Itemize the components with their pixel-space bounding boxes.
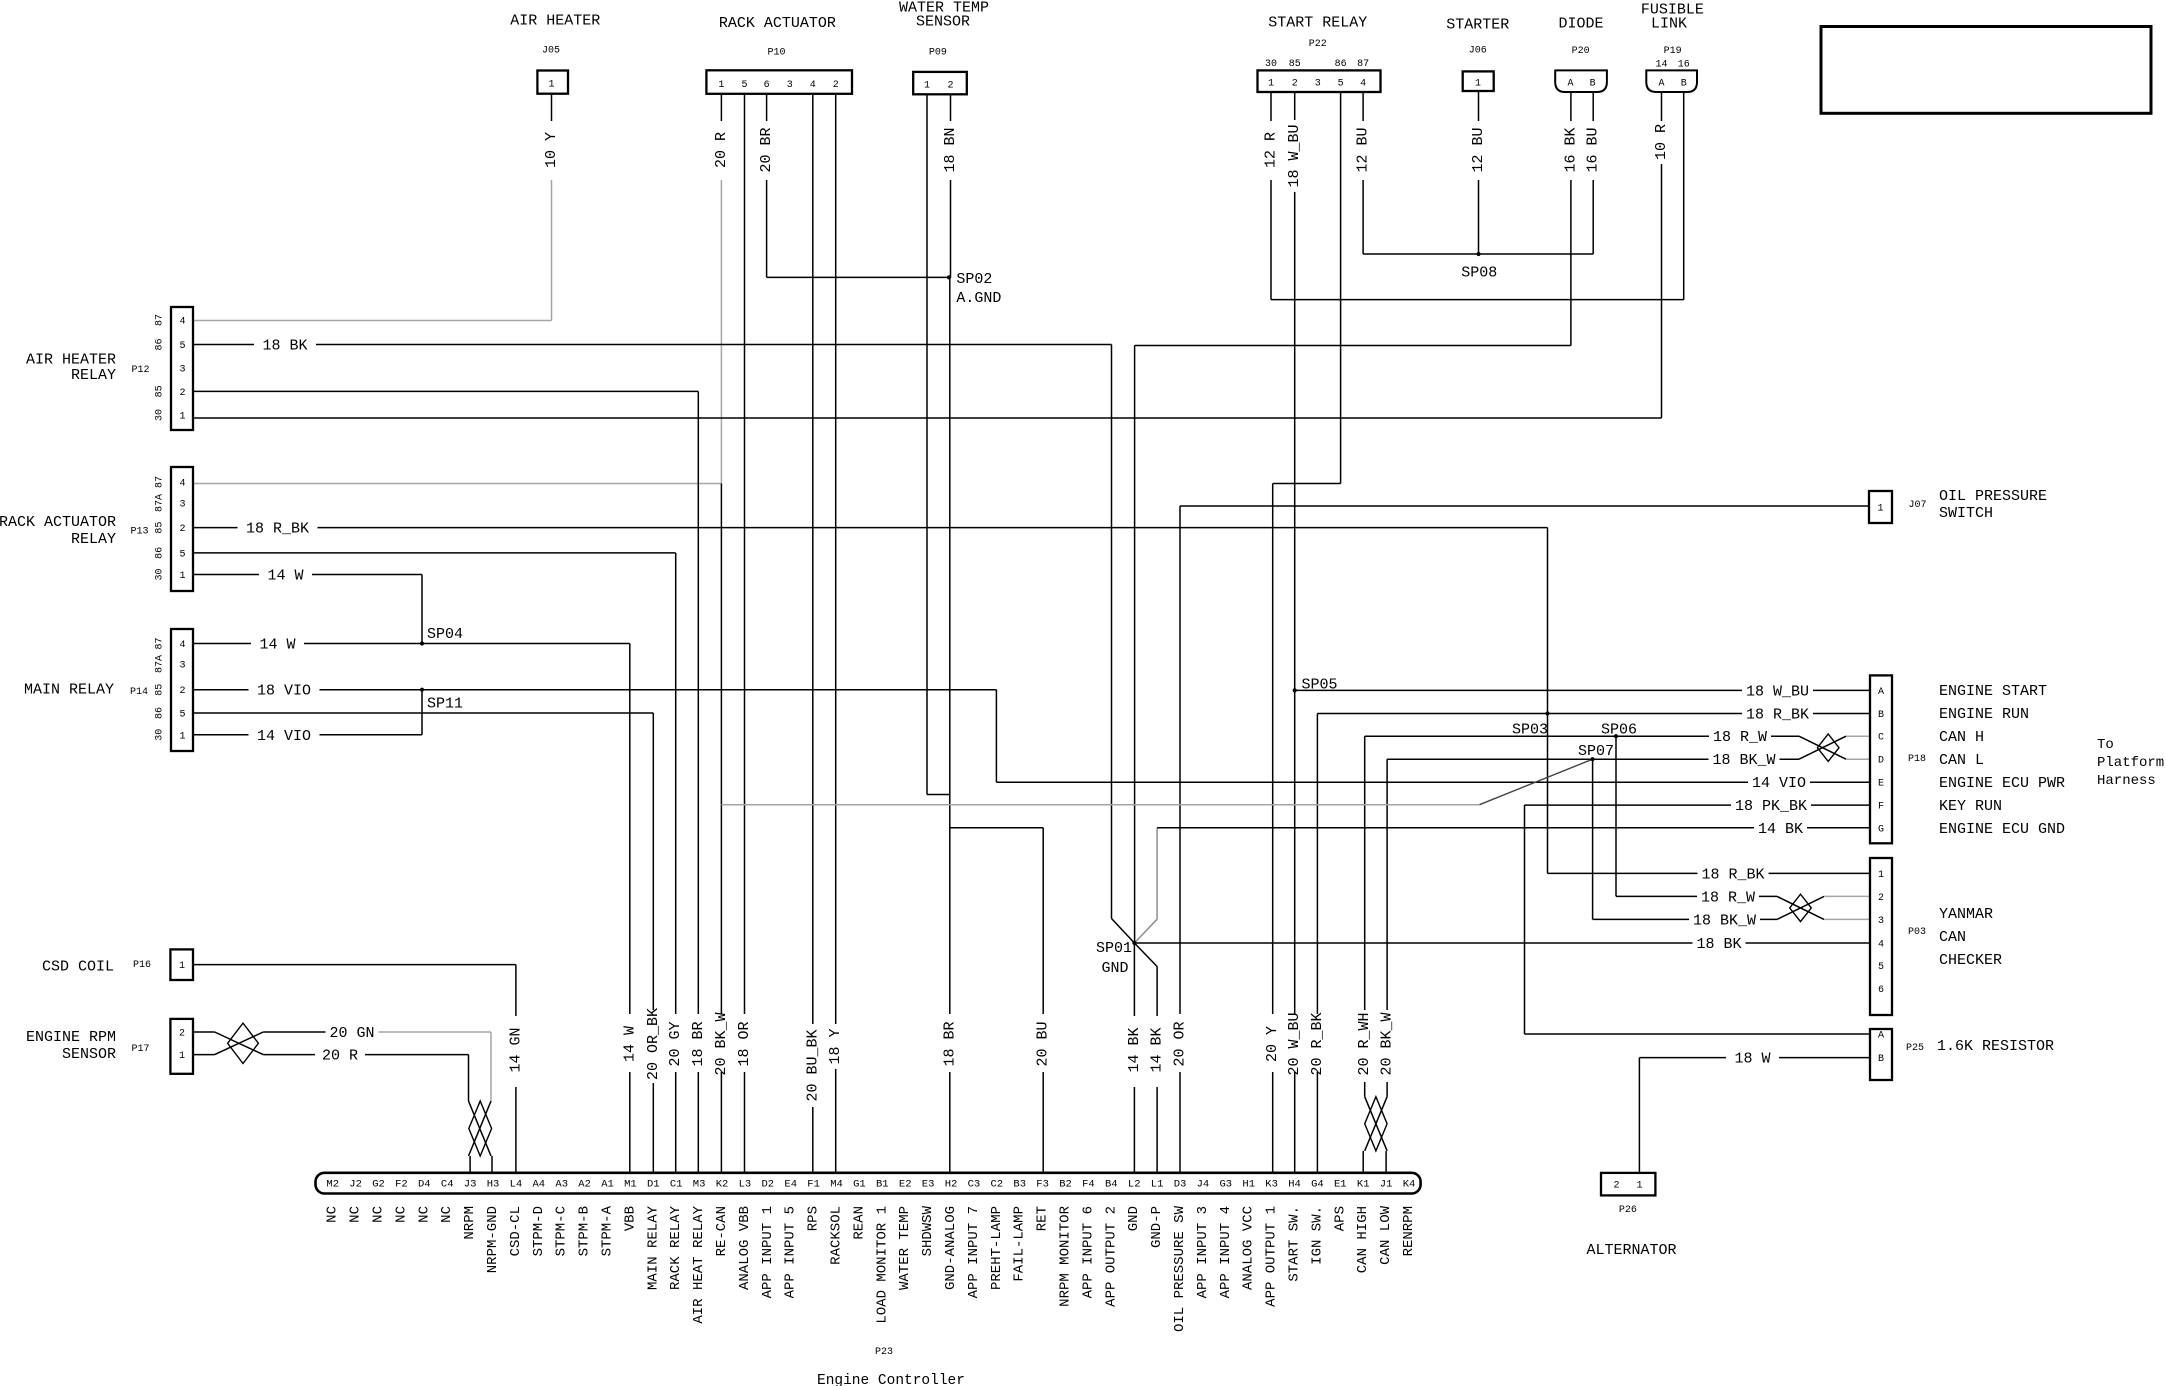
svg-text:2: 2 (947, 81, 953, 92)
svg-text:1: 1 (1877, 504, 1883, 515)
svg-text:OIL PRESSURE: OIL PRESSURE (1939, 488, 2047, 505)
svg-text:CAN HIGH: CAN HIGH (1355, 1206, 1371, 1273)
svg-text:RE-CAN: RE-CAN (714, 1206, 730, 1256)
svg-text:20 OR: 20 OR (1172, 1021, 1189, 1066)
svg-text:SENSOR: SENSOR (916, 14, 970, 31)
svg-text:ENGINE ECU PWR: ENGINE ECU PWR (1939, 775, 2065, 792)
svg-text:APP OUTPUT 2: APP OUTPUT 2 (1103, 1206, 1119, 1307)
svg-text:APP INPUT 4: APP INPUT 4 (1218, 1206, 1234, 1298)
svg-text:Engine Controller: Engine Controller (817, 1373, 965, 1386)
svg-text:M1: M1 (624, 1179, 637, 1191)
svg-text:B: B (1878, 1054, 1884, 1065)
svg-text:16: 16 (1678, 60, 1690, 71)
svg-text:18 BK: 18 BK (1696, 936, 1741, 953)
svg-text:6: 6 (764, 80, 770, 91)
svg-text:L4: L4 (510, 1179, 523, 1191)
svg-text:P12: P12 (131, 365, 149, 376)
svg-text:ALTERNATOR: ALTERNATOR (1587, 1242, 1677, 1259)
svg-text:12 R: 12 R (1263, 132, 1280, 168)
svg-text:SP07: SP07 (1578, 743, 1614, 760)
svg-text:NC: NC (348, 1206, 364, 1223)
svg-text:STPM-D: STPM-D (531, 1206, 547, 1256)
svg-text:E1: E1 (1334, 1179, 1347, 1191)
svg-text:4: 4 (179, 479, 185, 490)
svg-text:NRPM-GND: NRPM-GND (485, 1206, 501, 1273)
svg-text:P13: P13 (130, 527, 148, 538)
svg-text:18 R_BK: 18 R_BK (246, 521, 309, 538)
svg-text:4: 4 (810, 80, 816, 91)
svg-text:A: A (1658, 79, 1664, 90)
svg-text:85: 85 (155, 385, 166, 397)
svg-text:2: 2 (179, 1029, 185, 1040)
svg-text:30: 30 (1265, 59, 1277, 70)
svg-text:RELAY: RELAY (71, 531, 116, 548)
svg-text:APP INPUT 5: APP INPUT 5 (783, 1206, 799, 1298)
svg-text:1: 1 (1475, 79, 1481, 90)
svg-text:85: 85 (1289, 59, 1301, 70)
svg-text:RACK RELAY: RACK RELAY (668, 1205, 684, 1290)
svg-text:APS: APS (1332, 1206, 1348, 1231)
svg-text:C: C (1878, 733, 1884, 744)
svg-text:20 BR: 20 BR (758, 127, 775, 172)
svg-text:18 R_W: 18 R_W (1713, 729, 1767, 746)
svg-text:18 BN: 18 BN (942, 127, 959, 172)
svg-text:20 OR_BK: 20 OR_BK (645, 1008, 662, 1080)
svg-text:H4: H4 (1288, 1179, 1301, 1191)
svg-text:MAIN RELAY: MAIN RELAY (645, 1205, 661, 1290)
svg-text:START SW.: START SW. (1287, 1206, 1303, 1282)
svg-text:GND: GND (1102, 960, 1129, 977)
svg-text:CAN H: CAN H (1939, 729, 1984, 746)
svg-text:J2: J2 (349, 1179, 362, 1191)
svg-text:2: 2 (179, 686, 185, 697)
svg-text:30: 30 (155, 409, 166, 421)
svg-text:APP INPUT 7: APP INPUT 7 (966, 1206, 982, 1298)
svg-text:18 R_W: 18 R_W (1701, 889, 1755, 906)
svg-text:J4: J4 (1197, 1179, 1210, 1191)
svg-text:APP INPUT 1: APP INPUT 1 (760, 1206, 776, 1298)
svg-text:P19: P19 (1664, 46, 1682, 57)
svg-text:G4: G4 (1311, 1179, 1324, 1191)
svg-text:20 R_WH: 20 R_WH (1356, 1012, 1373, 1075)
svg-text:2: 2 (1878, 893, 1884, 904)
svg-text:B: B (1878, 710, 1884, 721)
svg-text:NC: NC (393, 1206, 409, 1223)
svg-text:VBB: VBB (622, 1206, 638, 1231)
svg-text:5: 5 (741, 80, 747, 91)
svg-text:20 BU_BK: 20 BU_BK (804, 1029, 821, 1101)
svg-text:87A: 87A (155, 494, 166, 512)
svg-text:G: G (1878, 825, 1884, 836)
svg-text:87: 87 (155, 314, 166, 326)
svg-text:M3: M3 (693, 1179, 706, 1191)
svg-text:K4: K4 (1403, 1179, 1416, 1191)
svg-text:L3: L3 (739, 1179, 752, 1191)
svg-text:D: D (1878, 756, 1884, 767)
svg-text:RENRPM: RENRPM (1401, 1206, 1417, 1256)
svg-text:H1: H1 (1242, 1179, 1255, 1191)
svg-text:C2: C2 (990, 1179, 1003, 1191)
svg-text:AIR HEAT RELAY: AIR HEAT RELAY (691, 1205, 707, 1323)
svg-text:STPM-A: STPM-A (600, 1205, 616, 1256)
svg-text:B2: B2 (1059, 1179, 1072, 1191)
svg-text:14 BK: 14 BK (1149, 1027, 1166, 1072)
svg-text:F4: F4 (1082, 1179, 1095, 1191)
svg-text:APP INPUT 3: APP INPUT 3 (1195, 1206, 1211, 1298)
svg-text:5: 5 (1338, 79, 1344, 90)
svg-text:L1: L1 (1151, 1179, 1164, 1191)
svg-text:12 BU: 12 BU (1355, 127, 1372, 172)
svg-text:1: 1 (1268, 79, 1274, 90)
svg-text:A.GND: A.GND (956, 290, 1001, 307)
svg-text:5: 5 (1878, 962, 1884, 973)
svg-text:CAN L: CAN L (1939, 752, 1984, 769)
svg-text:18 W_BU: 18 W_BU (1286, 124, 1303, 187)
svg-text:1: 1 (924, 81, 930, 92)
svg-text:4: 4 (1360, 79, 1366, 90)
svg-text:18 BR: 18 BR (690, 1021, 707, 1066)
svg-text:3: 3 (179, 500, 185, 511)
svg-text:STPM-B: STPM-B (577, 1206, 593, 1256)
svg-text:RPS: RPS (806, 1206, 822, 1231)
svg-text:IGN SW.: IGN SW. (1309, 1206, 1325, 1265)
svg-text:G2: G2 (372, 1179, 385, 1191)
svg-text:85: 85 (155, 522, 166, 534)
svg-text:K2: K2 (716, 1179, 729, 1191)
svg-text:SP05: SP05 (1302, 677, 1338, 694)
svg-text:1: 1 (1636, 1181, 1642, 1192)
svg-text:P18: P18 (1908, 754, 1926, 765)
svg-text:14 W: 14 W (621, 1026, 638, 1062)
svg-text:NRPM: NRPM (462, 1206, 478, 1240)
svg-text:4: 4 (179, 317, 185, 328)
svg-text:30: 30 (155, 568, 166, 580)
svg-text:3: 3 (179, 661, 185, 672)
svg-text:86: 86 (155, 547, 166, 559)
svg-text:87: 87 (1357, 59, 1369, 70)
svg-text:20 BK_W: 20 BK_W (713, 1012, 730, 1075)
svg-text:18 PK_BK: 18 PK_BK (1735, 798, 1807, 815)
svg-text:1: 1 (179, 731, 185, 742)
svg-text:F: F (1878, 802, 1884, 813)
svg-text:ENGINE RUN: ENGINE RUN (1939, 706, 2029, 723)
svg-text:20 BU: 20 BU (1035, 1021, 1052, 1066)
svg-text:CSD-CL: CSD-CL (508, 1206, 524, 1256)
svg-text:14 W: 14 W (267, 568, 303, 585)
svg-text:20 BK_W: 20 BK_W (1379, 1012, 1396, 1075)
svg-text:A4: A4 (532, 1179, 545, 1191)
svg-text:OIL PRESSURE SW: OIL PRESSURE SW (1172, 1205, 1188, 1332)
svg-text:A1: A1 (601, 1179, 614, 1191)
svg-text:L2: L2 (1128, 1179, 1141, 1191)
svg-text:P10: P10 (767, 48, 785, 59)
svg-text:ENGINE RPM: ENGINE RPM (26, 1029, 116, 1046)
svg-text:J05: J05 (542, 46, 560, 57)
svg-text:85: 85 (155, 684, 166, 696)
svg-text:CAN: CAN (1939, 929, 1966, 946)
svg-text:14: 14 (1655, 60, 1667, 71)
svg-text:18 BK_W: 18 BK_W (1693, 912, 1756, 929)
svg-text:E3: E3 (922, 1179, 935, 1191)
svg-text:18 W_BU: 18 W_BU (1746, 683, 1809, 700)
svg-text:14 VIO: 14 VIO (257, 728, 311, 745)
svg-text:4: 4 (1878, 939, 1884, 950)
svg-text:P03: P03 (1908, 927, 1926, 938)
svg-text:H2: H2 (945, 1179, 958, 1191)
svg-text:20 Y: 20 Y (1264, 1026, 1281, 1062)
svg-text:J3: J3 (464, 1179, 477, 1191)
svg-text:START RELAY: START RELAY (1268, 15, 1367, 32)
svg-text:M4: M4 (830, 1179, 843, 1191)
svg-text:14 BK: 14 BK (1126, 1027, 1143, 1072)
svg-text:18 R_BK: 18 R_BK (1746, 707, 1809, 724)
svg-text:SP01: SP01 (1096, 940, 1132, 957)
svg-text:P09: P09 (929, 48, 947, 59)
svg-text:APP INPUT 6: APP INPUT 6 (1080, 1206, 1096, 1298)
svg-text:D3: D3 (1174, 1179, 1187, 1191)
svg-text:16 BK: 16 BK (1562, 127, 1579, 172)
svg-text:87: 87 (155, 476, 166, 488)
svg-text:C4: C4 (441, 1179, 454, 1191)
svg-text:A: A (1878, 687, 1884, 698)
svg-text:FAIL-LAMP: FAIL-LAMP (1012, 1206, 1028, 1282)
svg-text:20 GN: 20 GN (329, 1025, 374, 1042)
svg-text:14 BK: 14 BK (1758, 821, 1803, 838)
svg-text:3: 3 (1315, 79, 1321, 90)
svg-text:PREHT-LAMP: PREHT-LAMP (989, 1206, 1005, 1290)
svg-text:GND-P: GND-P (1149, 1206, 1165, 1248)
svg-text:CSD COIL: CSD COIL (42, 959, 114, 976)
svg-text:E4: E4 (784, 1179, 797, 1191)
svg-text:C1: C1 (670, 1179, 683, 1191)
svg-text:18 OR: 18 OR (736, 1021, 753, 1066)
svg-text:B: B (1590, 79, 1596, 90)
svg-text:RET: RET (1035, 1206, 1051, 1231)
svg-text:10 Y: 10 Y (543, 132, 560, 168)
svg-text:86: 86 (155, 707, 166, 719)
svg-text:K1: K1 (1357, 1179, 1370, 1191)
svg-text:To: To (2097, 737, 2114, 753)
svg-text:P22: P22 (1309, 39, 1327, 50)
svg-text:LINK: LINK (1651, 16, 1687, 33)
svg-text:SENSOR: SENSOR (62, 1046, 116, 1063)
svg-text:6: 6 (1878, 985, 1884, 996)
svg-text:87: 87 (155, 637, 166, 649)
svg-text:J1: J1 (1380, 1179, 1393, 1191)
svg-text:1: 1 (179, 1051, 185, 1062)
svg-text:GND: GND (1126, 1206, 1142, 1231)
svg-text:18 BK: 18 BK (262, 338, 307, 355)
svg-text:RACK ACTUATOR: RACK ACTUATOR (719, 15, 836, 32)
svg-text:F3: F3 (1036, 1179, 1049, 1191)
svg-text:YANMAR: YANMAR (1939, 906, 1993, 923)
svg-text:18 Y: 18 Y (827, 1028, 844, 1064)
svg-text:16 BU: 16 BU (1585, 127, 1602, 172)
svg-text:2: 2 (179, 388, 185, 399)
svg-text:D4: D4 (418, 1179, 431, 1191)
svg-text:30: 30 (155, 729, 166, 741)
svg-text:STARTER: STARTER (1446, 17, 1509, 34)
svg-text:ANALOG VCC: ANALOG VCC (1241, 1206, 1257, 1290)
svg-text:ENGINE START: ENGINE START (1939, 683, 2047, 700)
svg-text:RACK ACTUATOR: RACK ACTUATOR (0, 514, 116, 531)
svg-text:E: E (1878, 779, 1884, 790)
svg-text:ANALOG VBB: ANALOG VBB (737, 1206, 753, 1290)
svg-text:P14: P14 (130, 687, 148, 698)
svg-text:20 R_BK: 20 R_BK (1309, 1012, 1326, 1075)
svg-text:D2: D2 (761, 1179, 774, 1191)
svg-text:2: 2 (1292, 79, 1298, 90)
svg-text:G1: G1 (853, 1179, 866, 1191)
svg-text:20 GY: 20 GY (667, 1021, 684, 1066)
svg-text:86: 86 (155, 338, 166, 350)
svg-text:P23: P23 (875, 1347, 893, 1358)
svg-text:SP03: SP03 (1512, 722, 1548, 739)
svg-text:14 VIO: 14 VIO (1752, 775, 1806, 792)
svg-text:E2: E2 (899, 1179, 912, 1191)
svg-text:SP02: SP02 (956, 271, 992, 288)
svg-text:14 GN: 14 GN (507, 1027, 524, 1072)
svg-text:RACKSOL: RACKSOL (829, 1206, 845, 1265)
svg-text:M2: M2 (326, 1179, 339, 1191)
svg-text:18 W: 18 W (1734, 1051, 1770, 1068)
svg-text:18 BK_W: 18 BK_W (1712, 752, 1775, 769)
svg-text:14 W: 14 W (259, 637, 295, 654)
svg-text:SP11: SP11 (427, 696, 463, 713)
svg-text:4: 4 (179, 640, 185, 651)
svg-text:SHDWSW: SHDWSW (920, 1205, 936, 1256)
svg-text:18 BR: 18 BR (941, 1021, 958, 1066)
svg-text:3: 3 (179, 365, 185, 376)
svg-text:AIR HEATER: AIR HEATER (510, 13, 600, 30)
svg-text:SWITCH: SWITCH (1939, 505, 1993, 522)
svg-text:20 W_BU: 20 W_BU (1286, 1012, 1303, 1075)
svg-text:1.6K RESISTOR: 1.6K RESISTOR (1937, 1038, 2054, 1055)
svg-text:C3: C3 (968, 1179, 981, 1191)
svg-text:H3: H3 (487, 1179, 500, 1191)
svg-text:STPM-C: STPM-C (554, 1206, 570, 1256)
svg-text:P25: P25 (1906, 1043, 1924, 1054)
svg-text:NC: NC (371, 1206, 387, 1223)
svg-text:GND-ANALOG: GND-ANALOG (943, 1206, 959, 1290)
svg-text:A2: A2 (578, 1179, 591, 1191)
svg-text:Platform: Platform (2097, 755, 2164, 771)
svg-text:12 BU: 12 BU (1470, 127, 1487, 172)
svg-text:CAN LOW: CAN LOW (1378, 1205, 1394, 1264)
svg-text:F1: F1 (807, 1179, 820, 1191)
svg-text:F2: F2 (395, 1179, 408, 1191)
svg-text:MAIN RELAY: MAIN RELAY (24, 682, 114, 699)
svg-text:APP OUTPUT 1: APP OUTPUT 1 (1264, 1206, 1280, 1307)
svg-text:A3: A3 (555, 1179, 568, 1191)
svg-text:18 R_BK: 18 R_BK (1701, 866, 1764, 883)
svg-text:ENGINE ECU GND: ENGINE ECU GND (1939, 821, 2065, 838)
svg-text:P16: P16 (133, 960, 151, 971)
svg-text:1: 1 (179, 961, 185, 972)
svg-text:2: 2 (179, 524, 185, 535)
svg-text:A: A (1878, 1031, 1884, 1042)
svg-text:5: 5 (179, 710, 185, 721)
svg-text:NC: NC (325, 1206, 341, 1223)
svg-text:5: 5 (179, 549, 185, 560)
svg-text:AIR HEATER: AIR HEATER (26, 352, 116, 369)
svg-text:DIODE: DIODE (1558, 16, 1603, 33)
svg-text:87A: 87A (155, 655, 166, 673)
svg-text:1: 1 (548, 80, 554, 91)
svg-text:A: A (1567, 79, 1573, 90)
svg-text:10 R: 10 R (1653, 124, 1670, 160)
svg-text:G3: G3 (1219, 1179, 1232, 1191)
svg-text:B3: B3 (1013, 1179, 1026, 1191)
svg-text:CHECKER: CHECKER (1939, 952, 2002, 969)
svg-text:2: 2 (1613, 1181, 1619, 1192)
svg-text:B: B (1681, 79, 1687, 90)
svg-text:20 R: 20 R (713, 132, 730, 168)
svg-text:D1: D1 (647, 1179, 660, 1191)
svg-text:1: 1 (179, 571, 185, 582)
svg-text:J07: J07 (1909, 500, 1927, 511)
svg-text:B4: B4 (1105, 1179, 1118, 1191)
svg-text:NC: NC (439, 1206, 455, 1223)
svg-text:1: 1 (1878, 870, 1884, 881)
svg-text:NC: NC (416, 1206, 432, 1223)
svg-text:86: 86 (1335, 59, 1347, 70)
svg-text:5: 5 (179, 341, 185, 352)
svg-text:LOAD MONITOR 1: LOAD MONITOR 1 (874, 1206, 890, 1324)
svg-text:RELAY: RELAY (71, 367, 116, 384)
svg-text:NRPM MONITOR: NRPM MONITOR (1058, 1205, 1074, 1306)
svg-text:2: 2 (833, 80, 839, 91)
svg-text:SP06: SP06 (1601, 722, 1637, 739)
svg-text:3: 3 (787, 80, 793, 91)
svg-text:1: 1 (718, 80, 724, 91)
svg-text:18 VIO: 18 VIO (257, 683, 311, 700)
svg-text:B1: B1 (876, 1179, 889, 1191)
svg-text:20 R: 20 R (322, 1048, 358, 1065)
svg-text:K3: K3 (1265, 1179, 1278, 1191)
svg-text:SP04: SP04 (427, 626, 463, 643)
svg-text:KEY RUN: KEY RUN (1939, 798, 2002, 815)
svg-text:1: 1 (179, 412, 185, 423)
svg-text:P20: P20 (1572, 46, 1590, 57)
svg-text:P26: P26 (1619, 1205, 1637, 1216)
svg-text:3: 3 (1878, 916, 1884, 927)
svg-text:Harness: Harness (2097, 773, 2156, 789)
svg-text:P17: P17 (131, 1044, 149, 1055)
svg-text:WATER TEMP: WATER TEMP (897, 1206, 913, 1290)
svg-text:SP08: SP08 (1461, 265, 1497, 282)
svg-text:REAN: REAN (851, 1206, 867, 1240)
svg-text:J06: J06 (1469, 46, 1487, 57)
